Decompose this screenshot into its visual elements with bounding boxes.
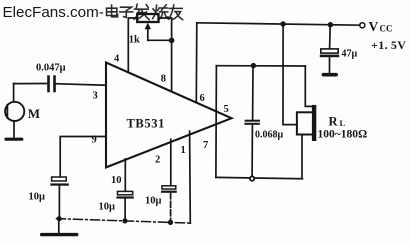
speaker RL — [297, 105, 316, 141]
ground bar below microphone — [4, 138, 23, 141]
ground bar below 47u — [322, 73, 338, 77]
wire 0.068 branch lower — [251, 125, 253, 179]
wire pot right down — [159, 18, 172, 40]
capacitor 10u second — [116, 191, 133, 198]
wire rail down to speaker left — [283, 24, 297, 125]
wire rail to ground bar — [58, 219, 60, 233]
svg-text:CC: CC — [380, 24, 393, 34]
svg-text:100~180Ω: 100~180Ω — [318, 129, 368, 141]
node rail speaker branch — [280, 21, 285, 26]
svg-text:10μ: 10μ — [29, 192, 46, 203]
svg-text:47μ: 47μ — [342, 49, 358, 60]
wire pin2 to cap3 — [170, 139, 172, 185]
svg-text:TB531: TB531 — [127, 117, 165, 131]
svg-text:7: 7 — [203, 140, 208, 151]
svg-text:V: V — [369, 19, 379, 34]
potentiometer wiper arrow — [145, 23, 151, 41]
wire wiper to node — [148, 39, 172, 41]
wire mic bottom to ground — [13, 121, 15, 137]
svg-text:5: 5 — [224, 104, 229, 115]
svg-text:ElecFans.com-: ElecFans.com- — [3, 4, 104, 21]
svg-text:1: 1 — [181, 145, 186, 156]
capacitor 0.047u — [49, 77, 55, 91]
svg-text:6: 6 — [200, 93, 205, 104]
wire cap2 to rail — [124, 199, 126, 221]
wire pin10 to cap2 — [124, 159, 126, 191]
wire cap1 to ground rail — [58, 186, 60, 219]
node cap2 rail junction — [122, 218, 127, 223]
wire cap3 to rail — [170, 193, 172, 223]
svg-text:3: 3 — [93, 91, 98, 102]
watermark glyph 友 — [169, 5, 183, 20]
svg-text:0.047μ: 0.047μ — [36, 63, 66, 74]
svg-text:R: R — [329, 115, 339, 129]
wire pot left to pin4 — [128, 18, 137, 72]
wire pin7 vertical through triangle — [215, 66, 218, 178]
node cap3 rail junction — [168, 220, 173, 225]
wire output box bottom — [216, 177, 303, 178]
wire pin9 — [60, 137, 106, 177]
speaker bottom wire — [301, 135, 303, 179]
terminal Vcc — [360, 23, 365, 28]
svg-text:+1. 5V: +1. 5V — [371, 38, 406, 52]
node cap1 rail junction — [57, 216, 62, 221]
watermark glyph 电 — [107, 5, 118, 17]
potentiometer 1k body — [137, 14, 158, 22]
capacitor 10u first — [50, 177, 68, 186]
node wiper junction — [169, 38, 175, 44]
top rail Vcc — [197, 23, 360, 25]
svg-text:4: 4 — [114, 54, 120, 65]
svg-text:8: 8 — [161, 74, 166, 85]
capacitor 47u — [320, 49, 339, 57]
svg-text:0.068μ: 0.068μ — [255, 130, 284, 141]
wire pin3 right segment — [55, 84, 106, 86]
ground bar bottom left — [40, 233, 78, 236]
wire node to pin8 — [171, 40, 173, 90]
wire rail to 47u cap — [329, 25, 332, 49]
node rail 47u branch — [328, 22, 333, 27]
svg-text:2: 2 — [155, 155, 160, 166]
svg-text:9: 9 — [92, 135, 97, 146]
wire mic top to pin3 wire — [13, 84, 15, 102]
svg-text:10μ: 10μ — [99, 202, 116, 213]
svg-text:10: 10 — [111, 175, 122, 186]
wire pin3 left segment — [14, 83, 48, 85]
capacitor 10u third — [161, 186, 177, 193]
node 0.068 top junction — [251, 63, 256, 68]
svg-text:1k: 1k — [129, 35, 140, 46]
wire 0.068 branch upper — [252, 66, 254, 120]
svg-text:L: L — [340, 118, 346, 128]
wire pin1 to rail — [189, 131, 192, 223]
capacitor 0.068u — [245, 121, 259, 124]
op-amp TB531 — [106, 63, 232, 168]
wire pin6 from top rail — [195, 23, 198, 103]
svg-text:M: M — [28, 106, 40, 121]
speaker top wire — [305, 66, 312, 106]
watermark glyph 子 — [120, 7, 133, 17]
wire output box top — [216, 65, 305, 67]
watermark glyph 烧 — [153, 5, 168, 19]
svg-text:10μ: 10μ — [145, 196, 162, 207]
watermark glyph 发 — [134, 4, 149, 19]
ground rail chain line — [57, 219, 191, 224]
node 0.068 bottom junction — [250, 176, 254, 180]
microphone M — [5, 102, 24, 121]
wire 47u to ground — [329, 57, 331, 73]
